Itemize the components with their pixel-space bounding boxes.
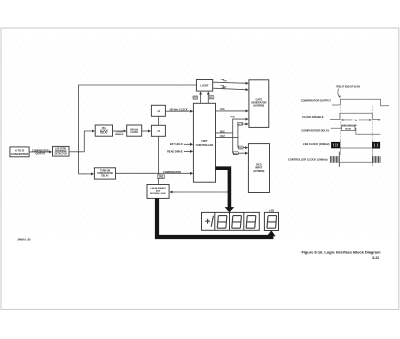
svg-text:LIGHT: LIGHT <box>200 83 208 87</box>
tag delay box <box>342 126 356 131</box>
box divider by 5 <box>151 125 165 136</box>
svg-text:KCZ: KCZ <box>220 136 225 138</box>
node junction dot comparator <box>158 173 160 175</box>
wire BUC into BCD box <box>233 152 248 154</box>
svg-text:CONTROLLER: CONTROLLER <box>196 143 214 147</box>
box LSB digit <box>264 212 278 230</box>
tag boxed label on blanking feed <box>158 175 165 180</box>
svg-text:UNIT: UNIT <box>201 139 207 143</box>
svg-text:LSB CLOCK (100kHz): LSB CLOCK (100kHz) <box>303 142 330 146</box>
waveform controller clock gate <box>339 161 372 163</box>
svg-text:AND: AND <box>156 190 161 193</box>
box LSB BLANKING AND DECIMAL LOGIC <box>147 185 169 199</box>
svg-text:LSB BLANKING: LSB BLANKING <box>150 187 166 190</box>
svg-text:READ DRIVE: READ DRIVE <box>167 149 183 153</box>
waveform comparator delay <box>331 128 381 134</box>
svg-text:÷2: ÷2 <box>157 109 161 113</box>
svg-text:(HYBRID): (HYBRID) <box>253 105 264 108</box>
label COMPARATOR OUTPUT <box>32 149 49 155</box>
svg-text:CLOCK: CLOCK <box>158 178 164 180</box>
digit 8 cell3 <box>232 216 242 229</box>
wire LSB zero crossing output <box>69 151 84 153</box>
node junction dot <box>78 151 80 153</box>
box UNIT CONTROLLER <box>193 103 215 182</box>
wire into turn-on comparator delay <box>79 173 94 175</box>
svg-text:COMPARATOR OUTPUT: COMPARATOR OUTPUT <box>301 98 331 102</box>
wire BUC riser to gate gen <box>233 119 248 153</box>
wire read drive <box>184 150 193 152</box>
svg-text:100 kHz CLOCK: 100 kHz CLOCK <box>169 108 187 111</box>
tag FG <box>209 96 214 100</box>
svg-text:Figure 8-16. Logic Interface B: Figure 8-16. Logic Interface Block Diagr… <box>301 250 381 255</box>
digit plus-one <box>205 216 213 227</box>
svg-text:KG: KG <box>194 98 198 100</box>
waveform controller clock left burst <box>330 152 339 167</box>
svg-text:ENABLE: ENABLE <box>115 133 124 136</box>
svg-text:KCL: KCL <box>220 109 225 111</box>
arrow bus up into LSB digit <box>267 230 276 236</box>
node trig arrow tip <box>339 96 341 99</box>
wire comparator to unit controller <box>116 172 193 174</box>
label CLOCK ENABLE <box>115 131 124 136</box>
tag KG <box>193 96 198 100</box>
wire 400k to div5 <box>142 130 151 132</box>
svg-text:CLOCK: CLOCK <box>130 132 138 134</box>
svg-text:8-23: 8-23 <box>372 256 379 260</box>
waveform clock disable <box>330 113 380 119</box>
wire BUC <box>216 132 233 134</box>
box TURN-ON COMPARATOR DELAY <box>94 168 115 179</box>
svg-text:(HYBRID): (HYBRID) <box>253 170 264 173</box>
svg-text:BUC: BUC <box>234 153 239 155</box>
svg-text:EXT HOLD: EXT HOLD <box>170 142 183 146</box>
svg-text:CLOCK DISABLE: CLOCK DISABLE <box>302 115 324 119</box>
waveform lsb clock left block <box>331 142 340 148</box>
svg-text:FG: FG <box>210 97 213 99</box>
box P/A CLOCK DELAY <box>95 125 112 136</box>
box A TO D CONVERTER <box>10 147 29 157</box>
svg-text:3466A-L-30: 3466A-L-30 <box>18 238 31 241</box>
digit 8 LSB <box>267 216 277 229</box>
svg-text:CONVERTER: CONVERTER <box>11 152 30 156</box>
svg-text:BUC: BUC <box>220 131 225 133</box>
wire FG up to LIGHT <box>207 92 209 103</box>
box LIGHT <box>196 80 212 92</box>
svg-text:÷5: ÷5 <box>157 129 161 133</box>
wire comparator output (A/D to LSB zero crossing) <box>29 151 51 153</box>
waveform lsb clock right block <box>372 142 380 149</box>
wire riser to P/A clock delay <box>84 131 94 152</box>
svg-text:CONTROLLER CLOCK (100kHz): CONTROLLER CLOCK (100kHz) <box>288 157 328 161</box>
svg-text:TRIG AT END OF SCAN: TRIG AT END OF SCAN <box>336 85 360 88</box>
timing diagram <box>288 85 389 167</box>
svg-text:KCX: KCX <box>238 124 243 126</box>
dimension arrow Ta right <box>359 119 372 121</box>
bus thick blanking to LSB digit <box>157 198 271 237</box>
display readout box <box>202 212 260 230</box>
digit 8 cell4 <box>246 216 256 229</box>
node guide line left <box>339 101 341 140</box>
symbol step mark lower <box>220 85 226 89</box>
tag KC <box>239 146 244 150</box>
svg-text:PUC: PUC <box>231 117 236 119</box>
svg-text:DELAY: DELAY <box>345 128 352 131</box>
wire LIGHT to gate generator lower <box>213 88 248 90</box>
svg-text:DELAY: DELAY <box>101 174 109 177</box>
arrow bus down into display <box>225 207 235 212</box>
tag KCX <box>238 122 243 126</box>
svg-text:400 kHz: 400 kHz <box>130 128 139 131</box>
svg-text:LSB: LSB <box>269 208 274 212</box>
wire div5 down to LSB blanking <box>158 136 160 184</box>
wire KCZ riser to gate gen <box>238 124 248 148</box>
box divider by 2 <box>151 105 165 116</box>
symbol step mark upper <box>221 79 227 81</box>
svg-text:DETECTOR: DETECTOR <box>55 153 68 155</box>
wire KCZ <box>216 136 238 138</box>
svg-text:COMPARATOR DELAY: COMPARATOR DELAY <box>301 129 329 133</box>
bus thick controller to display <box>216 168 230 208</box>
wire LSB blanking display feed <box>170 191 230 193</box>
wire ext hold <box>184 143 193 145</box>
digit 8 cell2 <box>217 216 227 229</box>
waveform controller clock right burst <box>373 156 381 163</box>
svg-text:DECIMAL LOGIC: DECIMAL LOGIC <box>150 192 166 195</box>
waveform lsb clock gate <box>340 147 372 149</box>
svg-text:DELAY: DELAY <box>100 132 108 135</box>
wire clock enable <box>113 130 126 132</box>
box 400 kHz CLOCK <box>127 125 142 136</box>
svg-text:OUTPUT: OUTPUT <box>36 153 46 156</box>
wire div2 to div5 <box>158 116 160 125</box>
wire trig pointer <box>338 89 340 98</box>
svg-text:COMPARATOR: COMPARATOR <box>163 170 181 174</box>
waveform comparator output <box>332 99 389 106</box>
wire long top line to LIGHT <box>79 85 197 174</box>
tag BUC low <box>233 152 238 156</box>
dimension arrow Ta left <box>341 119 352 121</box>
wire KC into BCD box <box>238 147 248 149</box>
wire KG up to LIGHT <box>200 92 202 103</box>
box LSB ZERO CROSSING DETECTOR <box>53 146 70 156</box>
node guide line right <box>371 106 373 140</box>
box GATE GENERATOR HYBRID <box>249 80 269 128</box>
wire LIGHT to gate generator upper <box>213 82 248 83</box>
wire 100kHz clock to unit controller <box>165 110 192 112</box>
wire KCL to gate generator <box>216 110 249 112</box>
box BCD INPUT HYBRID <box>248 144 269 193</box>
